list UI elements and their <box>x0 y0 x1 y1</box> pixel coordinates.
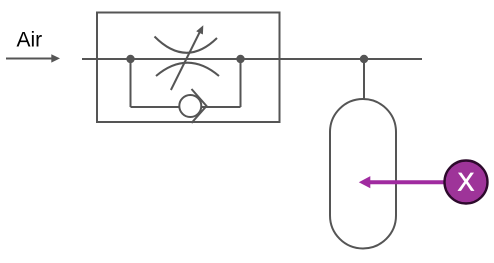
node junction tank <box>360 55 368 63</box>
wire bypass left <box>130 59 132 107</box>
air reservoir tank <box>330 99 396 249</box>
node junction left <box>126 55 134 63</box>
marker X circle <box>445 161 488 204</box>
svg-text:Air: Air <box>17 29 43 52</box>
wire bypass bottom <box>131 106 241 108</box>
wire to reservoir <box>363 59 365 99</box>
node junction right <box>236 55 244 63</box>
throttle adjustment arrow <box>171 25 203 90</box>
wire main line <box>82 58 422 60</box>
svg-text:X: X <box>458 169 475 197</box>
check valve <box>179 89 206 123</box>
wire bypass right <box>240 59 242 107</box>
flow control valve enclosure U1 <box>97 13 280 123</box>
throttle valve arcs <box>155 37 220 77</box>
arrow X pointer <box>359 176 444 188</box>
air inlet arrow <box>6 54 60 62</box>
